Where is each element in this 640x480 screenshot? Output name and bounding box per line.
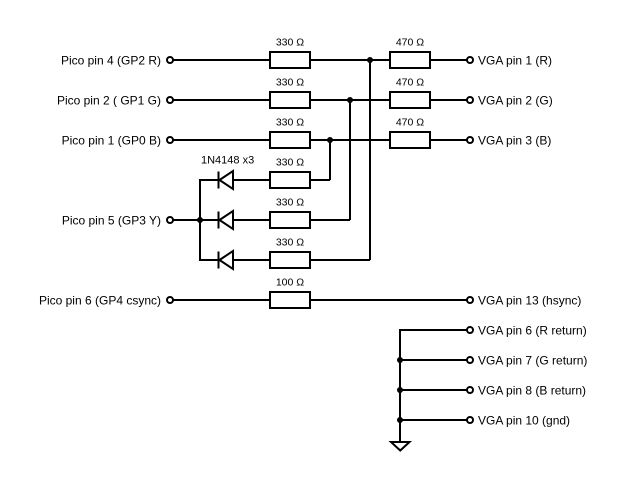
svg-text:VGA pin 8 (B return): VGA pin 8 (B return) bbox=[478, 384, 586, 398]
svg-text:330 Ω: 330 Ω bbox=[276, 77, 304, 89]
svg-text:470 Ω: 470 Ω bbox=[396, 117, 424, 129]
svg-text:VGA pin 10 (gnd): VGA pin 10 (gnd) bbox=[478, 414, 570, 428]
svg-text:Pico pin 6 (GP4 csync): Pico pin 6 (GP4 csync) bbox=[39, 294, 161, 308]
svg-text:VGA pin 13 (hsync): VGA pin 13 (hsync) bbox=[478, 294, 581, 308]
svg-text:Pico pin 2 ( GP1 G): Pico pin 2 ( GP1 G) bbox=[57, 94, 161, 108]
svg-text:100 Ω: 100 Ω bbox=[276, 277, 304, 289]
svg-text:330 Ω: 330 Ω bbox=[276, 237, 304, 249]
svg-text:VGA pin 6 (R return): VGA pin 6 (R return) bbox=[478, 324, 587, 338]
svg-text:1N4148 x3: 1N4148 x3 bbox=[201, 155, 254, 167]
svg-text:330 Ω: 330 Ω bbox=[276, 197, 304, 209]
svg-text:Pico pin 4 (GP2 R): Pico pin 4 (GP2 R) bbox=[61, 54, 161, 68]
svg-text:330 Ω: 330 Ω bbox=[276, 117, 304, 129]
svg-text:VGA pin 1 (R): VGA pin 1 (R) bbox=[478, 54, 552, 68]
svg-text:VGA pin 3 (B): VGA pin 3 (B) bbox=[478, 134, 551, 148]
svg-text:VGA pin 7 (G return): VGA pin 7 (G return) bbox=[478, 354, 587, 368]
svg-text:470 Ω: 470 Ω bbox=[396, 37, 424, 49]
svg-text:VGA pin 2 (G): VGA pin 2 (G) bbox=[478, 94, 553, 108]
svg-text:Pico pin 5 (GP3 Y): Pico pin 5 (GP3 Y) bbox=[62, 214, 161, 228]
svg-text:Pico pin 1 (GP0 B): Pico pin 1 (GP0 B) bbox=[62, 134, 161, 148]
svg-text:470 Ω: 470 Ω bbox=[396, 77, 424, 89]
svg-text:330 Ω: 330 Ω bbox=[276, 157, 304, 169]
svg-text:330 Ω: 330 Ω bbox=[276, 37, 304, 49]
